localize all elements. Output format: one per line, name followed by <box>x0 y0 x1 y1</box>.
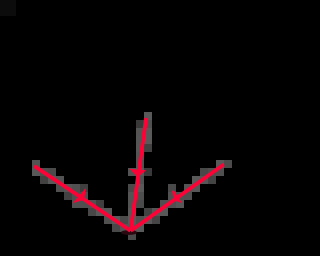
wire middle force vector shaft <box>131 118 147 231</box>
right force arrowhead <box>173 191 180 202</box>
wire left force vector shaft <box>34 166 131 231</box>
jpeg-noise gray blocks around strokes <box>32 112 232 240</box>
faint corner square <box>0 0 16 16</box>
middle force arrowhead <box>132 170 144 176</box>
left force arrowhead <box>75 191 85 202</box>
junction bleed smudge <box>121 230 137 235</box>
wire right force vector shaft <box>131 165 224 231</box>
